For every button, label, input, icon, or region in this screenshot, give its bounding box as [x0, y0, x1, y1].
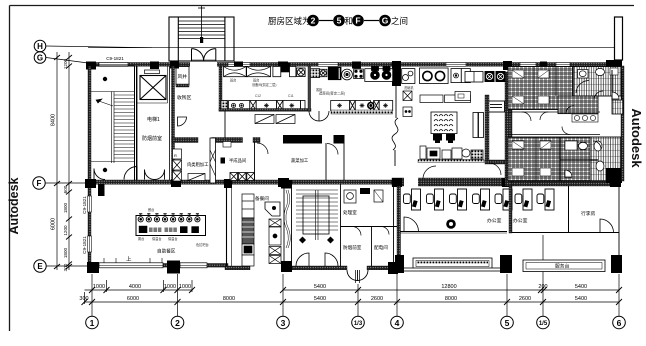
stair2 doors bottom	[296, 253, 338, 266]
window C9-1821 left 2	[88, 236, 92, 252]
svg-text:1: 1	[90, 318, 95, 328]
svg-text:Autodesk: Autodesk	[7, 177, 21, 234]
top stair bump outline	[169, 17, 234, 61]
scale black squares	[221, 158, 226, 164]
window C9-1821 in top wall	[99, 63, 128, 67]
svg-text:E: E	[37, 262, 43, 271]
E axis wall bottom left	[88, 258, 228, 268]
stair arrow	[96, 100, 113, 106]
axis circle H	[34, 40, 46, 52]
counter front dotted	[418, 160, 484, 163]
axis circle G	[34, 52, 46, 64]
equipment row lower right kitchen	[420, 146, 483, 159]
duct rects	[473, 113, 484, 138]
svg-text:C11: C11	[288, 94, 294, 98]
svg-text:洗碗机: 洗碗机	[404, 85, 414, 90]
dish rack with plates	[431, 112, 457, 134]
E wall columns	[87, 261, 180, 274]
stair landing dots	[103, 77, 107, 81]
svg-text:肉类粗加工: 肉类粗加工	[187, 161, 209, 168]
kitchen right wall at axis5	[505, 72, 512, 186]
window C9-1821 left 1	[88, 196, 92, 212]
svg-text:6000: 6000	[51, 218, 57, 230]
bump flag pole	[201, 6, 203, 38]
buffet equipment in counter	[139, 226, 199, 233]
axis circle 3	[277, 316, 290, 329]
door below air shaft room	[178, 117, 187, 126]
canopy line right wing	[88, 47, 614, 49]
svg-text:保温台: 保温台	[168, 236, 178, 241]
svg-text:蔬菜加工: 蔬菜加工	[291, 157, 309, 164]
svg-text:6000: 6000	[127, 296, 139, 302]
svg-text:班台: 班台	[230, 78, 236, 83]
svg-text:餐台: 餐台	[148, 207, 154, 212]
lower dim texts	[79, 296, 587, 302]
door gap office	[404, 178, 418, 187]
F axis wall	[88, 178, 618, 187]
cold room black walls	[283, 135, 345, 144]
doors into middle rooms	[352, 227, 389, 236]
axis4 partition lower with S doors	[392, 86, 398, 166]
prep tables with diagonals	[255, 115, 295, 124]
sub dims F-E	[63, 58, 68, 271]
svg-text:1200: 1200	[63, 58, 68, 69]
svg-text:1000: 1000	[93, 284, 105, 290]
window gap kitchen top 3	[446, 63, 466, 67]
double door lobby bottom	[145, 170, 165, 180]
rack feet black	[433, 134, 455, 143]
wall between offices	[509, 186, 512, 233]
svg-text:300: 300	[79, 296, 88, 302]
svg-text:5400: 5400	[314, 284, 326, 290]
svg-text:1200: 1200	[63, 225, 68, 236]
axis circle 2	[171, 316, 184, 329]
svg-text:200: 200	[538, 284, 547, 290]
svg-text:4000: 4000	[129, 284, 141, 290]
axis circle 1/5	[537, 316, 550, 329]
svg-text:粥台: 粥台	[138, 236, 144, 241]
svg-text:12800: 12800	[441, 284, 456, 290]
svg-text:防烟前室: 防烟前室	[343, 244, 362, 251]
left outer wall	[88, 66, 92, 264]
svg-text:行李房: 行李房	[581, 210, 596, 217]
svg-text:防烟前室: 防烟前室	[142, 135, 162, 142]
svg-text:8400: 8400	[51, 114, 57, 126]
svg-text:G: G	[382, 16, 389, 26]
svg-text:服务台: 服务台	[555, 263, 570, 270]
axis circle E	[34, 260, 46, 272]
shelf boxes	[420, 95, 471, 103]
extension lines	[85, 235, 620, 316]
kitchen mid wall hatched below counters	[219, 109, 311, 112]
axis circle 4	[391, 316, 404, 329]
air shaft room	[176, 67, 189, 86]
svg-text:电梯1: 电梯1	[147, 116, 160, 123]
mid wall segments y138	[172, 138, 260, 143]
svg-text:厨房区域为: 厨房区域为	[268, 16, 311, 26]
svg-text:5: 5	[337, 16, 342, 26]
title circle 2	[307, 15, 333, 27]
lower dim chain	[82, 299, 623, 305]
svg-text:R: R	[174, 153, 177, 158]
small desk top right of kitchen	[488, 101, 505, 112]
luggage door	[600, 219, 614, 233]
svg-text:5400: 5400	[314, 296, 326, 302]
service desk	[523, 260, 605, 272]
office left wall	[397, 186, 401, 268]
hatched corridor wall horizontal	[485, 160, 507, 164]
svg-text:G: G	[37, 54, 43, 63]
right outer wall of toilets	[621, 66, 624, 181]
svg-text:5400: 5400	[575, 284, 587, 290]
partition x309	[308, 66, 311, 111]
svg-text:办公室: 办公室	[513, 217, 528, 224]
steamer dotted counter	[331, 110, 393, 114]
urinal room right	[579, 71, 586, 77]
boxes along left kitchen wall	[173, 149, 182, 181]
elevator shaft	[137, 66, 170, 180]
bump entry double door	[192, 49, 216, 63]
svg-text:4: 4	[395, 318, 400, 328]
svg-text:2: 2	[311, 16, 316, 26]
prep tables lower	[188, 174, 205, 181]
svg-text:处理室: 处理室	[343, 209, 357, 216]
left dim chain main	[54, 52, 72, 270]
reception counter office	[413, 258, 492, 269]
window gap toilets top	[520, 63, 536, 67]
E wall middle section	[225, 262, 398, 274]
svg-text:保温台: 保温台	[152, 236, 162, 241]
F wall columns	[85, 178, 621, 188]
corridor sinks	[572, 114, 598, 122]
svg-text:班台: 班台	[253, 78, 259, 83]
wc fixture in 处理室	[344, 190, 356, 203]
svg-text:蒸柜: 蒸柜	[316, 87, 323, 92]
strip upper walls	[611, 70, 613, 100]
svg-text:上: 上	[126, 255, 132, 263]
title annotation: kitchen zone note	[268, 16, 408, 26]
svg-text:1800: 1800	[63, 202, 68, 213]
stair1 room walls	[91, 66, 137, 180]
axis circle F	[33, 177, 45, 189]
svg-text:2600: 2600	[519, 296, 531, 302]
columns on top wall	[86, 60, 622, 86]
svg-text:C9-1821: C9-1821	[82, 196, 87, 214]
equip labels	[230, 78, 276, 88]
title circle F	[352, 15, 379, 27]
svg-text:F: F	[355, 16, 360, 26]
buffet stools row	[138, 217, 200, 222]
top wall G axis	[88, 62, 612, 67]
svg-text:2600: 2600	[371, 296, 383, 302]
tall cabinet column	[242, 194, 254, 266]
svg-text:5400: 5400	[575, 296, 587, 302]
stair1 treads	[91, 92, 135, 164]
inner partitions	[533, 67, 535, 110]
svg-text:1000: 1000	[179, 284, 191, 290]
svg-text:办公室: 办公室	[487, 217, 502, 224]
middle room between kitchen and toilets	[423, 163, 501, 179]
right lobby wall	[618, 186, 620, 255]
office front line	[400, 231, 507, 233]
tiny equip labels kitchen	[255, 85, 414, 98]
office bottom wall	[395, 255, 622, 273]
corridor between toilet blocks	[508, 112, 600, 135]
axis circle 1	[86, 316, 99, 329]
svg-text:8000: 8000	[445, 296, 457, 302]
room 处理室	[341, 184, 398, 266]
equipment stack middle	[269, 219, 281, 264]
title circle G	[379, 15, 391, 27]
svg-text:2: 2	[175, 318, 180, 328]
small box with mark	[223, 142, 231, 148]
room partitions below kitchen	[225, 111, 344, 180]
window gap kitchen top 1	[228, 63, 250, 67]
svg-text:1/3: 1/3	[354, 321, 363, 327]
svg-text:配电间: 配电间	[374, 244, 388, 251]
office door	[404, 217, 419, 232]
door gap at bump	[190, 62, 217, 67]
svg-text:1000: 1000	[164, 284, 176, 290]
small table left of wok	[455, 92, 471, 101]
wok burner pair	[465, 71, 506, 82]
right kitchen counters row2	[331, 101, 393, 111]
svg-text:自助餐区: 自助餐区	[157, 248, 176, 255]
svg-text:C12: C12	[255, 94, 261, 98]
hatched strip	[612, 100, 623, 114]
svg-text:8000: 8000	[223, 296, 235, 302]
corridor wall hatched right of lobby	[172, 66, 175, 180]
svg-text:600: 600	[63, 185, 68, 193]
kitchen partition wall x220	[219, 66, 222, 111]
desks row office	[404, 189, 555, 210]
svg-text:H: H	[37, 42, 43, 51]
svg-text:设备间(暂定二层): 设备间(暂定二层)	[252, 82, 276, 87]
axis leader lines	[45, 46, 152, 266]
svg-text:和: 和	[345, 16, 354, 26]
round table	[446, 219, 456, 229]
svg-text:C9-1821: C9-1821	[82, 236, 87, 254]
svg-text:5: 5	[505, 318, 510, 328]
svg-text:风井: 风井	[178, 73, 188, 80]
luggage room wall	[568, 186, 570, 233]
svg-text:选菜间(暂定二层): 选菜间(暂定二层)	[319, 91, 345, 96]
middle counter row left kitchen	[221, 101, 305, 111]
svg-text:1/5: 1/5	[539, 321, 548, 327]
window gap kitchen top 2	[318, 63, 338, 67]
stool ticks above	[139, 214, 199, 216]
right wing tall rect at axis 6	[615, 17, 623, 60]
stair2 diamonds	[299, 237, 306, 244]
dumbwaiter shaft walls	[284, 184, 292, 266]
svg-text:1800: 1800	[63, 247, 68, 258]
title circle 5	[333, 15, 345, 27]
svg-text:收残区: 收残区	[177, 94, 192, 101]
axis circle 5	[501, 316, 514, 329]
svg-text:色拉吧台: 色拉吧台	[196, 242, 209, 247]
column below F in dining	[98, 184, 105, 196]
equipment row top (under G wall)	[224, 63, 320, 77]
buffet counter island	[136, 216, 206, 236]
window 2	[180, 263, 207, 268]
upper dim chain	[85, 287, 623, 293]
fixtures white boxes	[512, 70, 524, 78]
tiny labels under buffet	[138, 207, 209, 247]
svg-text:半成品间: 半成品间	[229, 157, 246, 164]
shaft wall vertical x212	[210, 138, 216, 183]
boxes right of axis4 partition	[403, 91, 412, 117]
separator wall x226	[226, 184, 228, 266]
axis circle 1/3	[352, 316, 365, 329]
X boxes row bottom	[230, 173, 254, 181]
svg-text:Autodesk: Autodesk	[629, 108, 644, 168]
exit double door middle	[347, 270, 368, 283]
svg-text:F: F	[37, 179, 42, 188]
upper dim texts	[93, 284, 587, 290]
svg-text:备餐间: 备餐间	[255, 195, 269, 202]
svg-text:之间: 之间	[391, 16, 408, 26]
svg-text:300: 300	[63, 263, 68, 271]
svg-text:3: 3	[281, 318, 286, 328]
hatched corridor wall vertical	[485, 95, 489, 163]
svg-text:6: 6	[617, 318, 622, 328]
window 4000	[99, 263, 163, 268]
svg-text:C9-1821: C9-1821	[106, 56, 124, 61]
door stair1 bottom	[94, 167, 137, 180]
bump stair treads	[178, 21, 225, 39]
double door below partition	[309, 111, 329, 121]
pentagon sink	[265, 202, 280, 216]
axis circle 6	[613, 316, 626, 329]
